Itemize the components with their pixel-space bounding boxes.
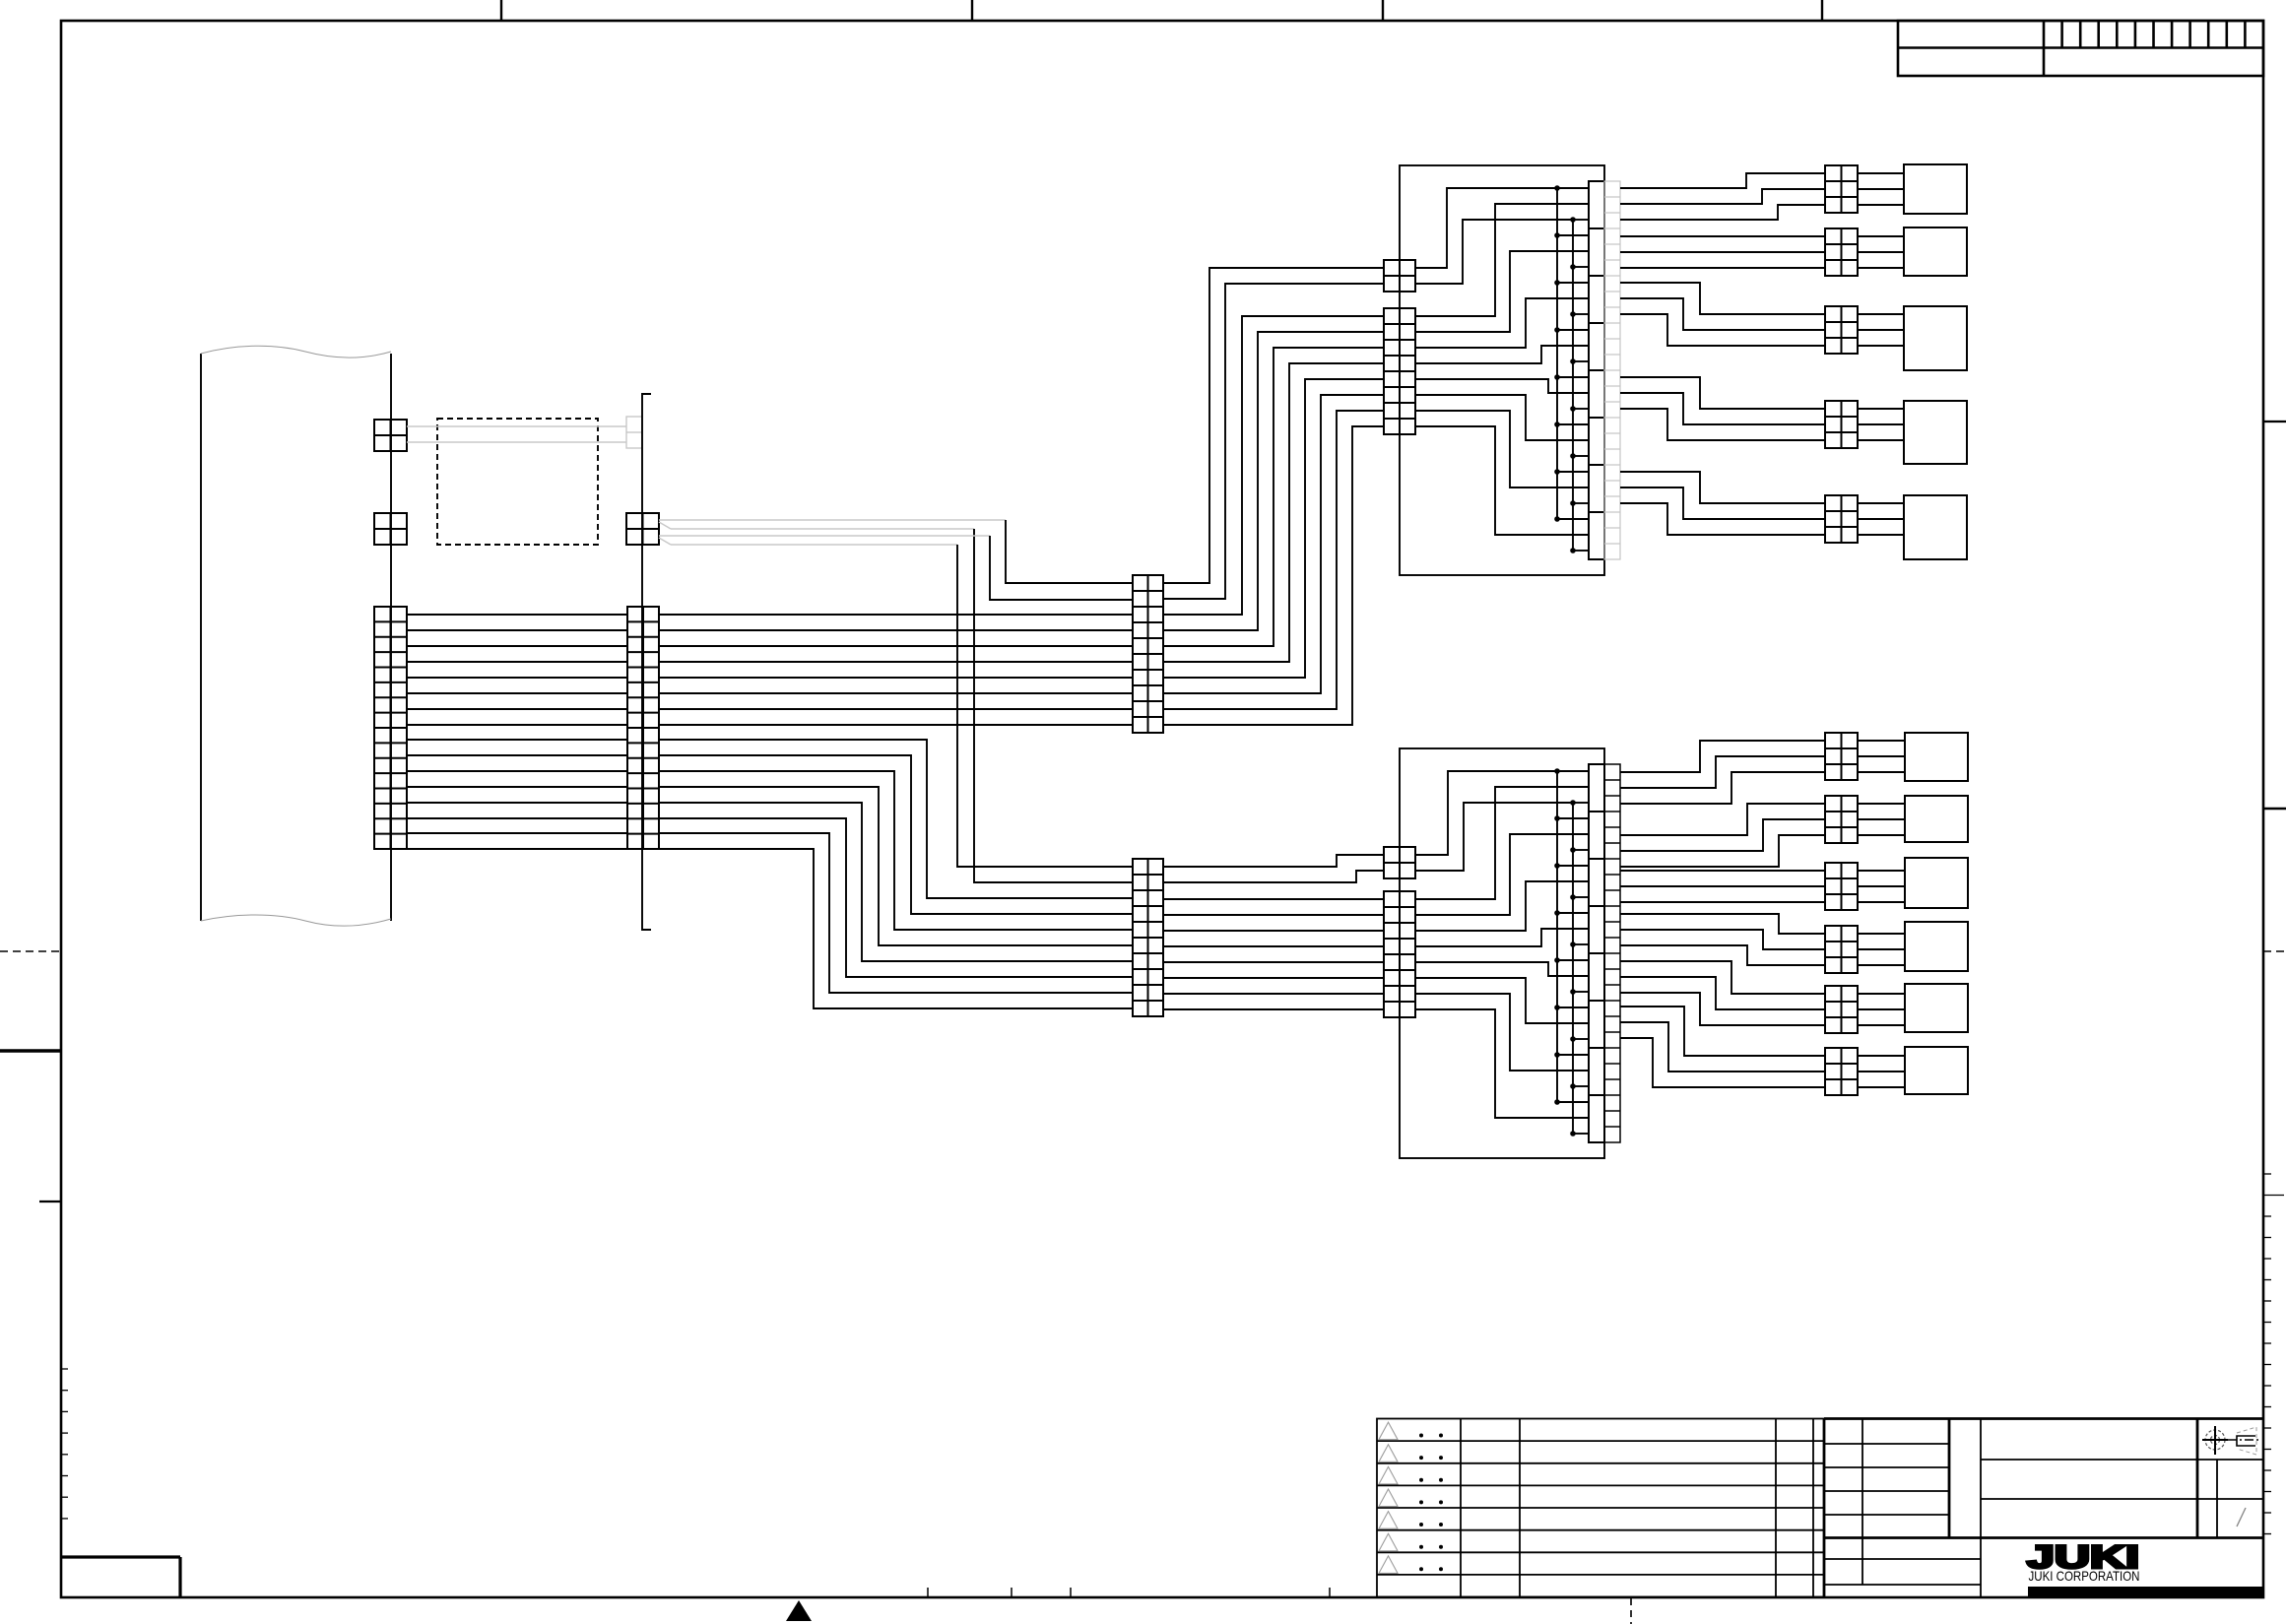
terminal box B1: [1905, 733, 1968, 781]
wires T2 to terminal: [1858, 235, 1904, 237]
wire to junction J1 row1: [1006, 520, 1133, 583]
wire to junction J1 row2: [990, 536, 1133, 600]
terminal box B2: [1905, 796, 1968, 842]
wire bundle TM to J1 (8 straight wires): [659, 614, 1133, 616]
wire to junction J2 row1: [957, 545, 1133, 867]
relay R2a outputs to bus: [1415, 771, 1557, 855]
gray pin column CN-T: [1604, 181, 1620, 559]
junction ladder J1 (10 rows): [1133, 575, 1163, 733]
dashed option box: [437, 419, 598, 545]
top centering tick 4: [1821, 0, 1823, 21]
gray wire pair A-1 (CN-A to gray cells): [407, 425, 626, 427]
relay block B6 (2x3): [1825, 1048, 1858, 1095]
wires B1 to terminal: [1858, 740, 1905, 742]
relay R1b outputs staircase to connector stubs: [1415, 204, 1589, 316]
wires B4 to terminal: [1858, 933, 1905, 935]
terminal box B6: [1905, 1047, 1968, 1094]
wires T5 to terminal: [1858, 502, 1904, 504]
bottom centerfold dashed mark: [1630, 1598, 1632, 1624]
terminal box B4: [1905, 922, 1968, 971]
wavy break line bottom: [201, 915, 391, 926]
relay block B3 (2x3): [1825, 863, 1858, 910]
gray wire pair A-2: [407, 441, 626, 443]
wires B5 to terminal: [1858, 993, 1905, 995]
left fold mark (dashed): [0, 950, 61, 952]
terminal box T5: [1904, 495, 1967, 559]
gray wire CN-C out 4 (slant): [659, 538, 671, 545]
wires T3 to terminal: [1858, 313, 1904, 315]
bottom fold triangle: [786, 1600, 812, 1621]
connector block CN-A (2x2) on left component: [374, 420, 407, 451]
bracket line (cable bundle): [642, 394, 651, 930]
connector block CN-C (2x2) on bracket line: [626, 513, 659, 545]
revision triangles and dots: [1379, 1422, 1398, 1573]
bus stubs with junction dots (top group): [1557, 187, 1589, 189]
relay block B4 (2x3): [1825, 926, 1858, 973]
fan-out wires T4: [1620, 377, 1825, 409]
junction ladder J2 (10 rows): [1133, 859, 1163, 1016]
left tick mark: [39, 1201, 61, 1202]
main connector CN-B (8 cells): [1589, 764, 1604, 1142]
bottom small ticks: [927, 1588, 929, 1597]
third-angle projection symbol: [2202, 1426, 2261, 1455]
internal bus line 2 (bottom): [1572, 803, 1574, 1134]
wires T4 to terminal: [1858, 408, 1904, 410]
left ruler ticks: [61, 1368, 68, 1370]
fan-out wires B4: [1620, 914, 1825, 934]
title block: [1824, 1419, 2263, 1598]
solid black footer bar: [2028, 1587, 2264, 1597]
gray wire CN-C out 2 (slant): [659, 522, 671, 529]
internal bus line 1 (top): [1556, 188, 1558, 519]
fan-out wires T3: [1620, 283, 1825, 314]
bottom-left scale box: [61, 1555, 180, 1558]
fan-out wires T5: [1620, 472, 1825, 503]
wires B2 to terminal: [1858, 803, 1905, 805]
terminal box T3: [1904, 306, 1967, 370]
gray wire CN-C out 1: [659, 519, 1006, 521]
right fold mark (dashed): [2263, 950, 2286, 952]
relay block R1a (2x2): [1384, 260, 1415, 292]
wire to junction J2 row2: [974, 529, 1133, 882]
terminal box T2: [1904, 227, 1967, 276]
bottom harness outline box: [1400, 748, 1604, 1158]
terminal box B5: [1905, 984, 1968, 1032]
wires T1 to terminal: [1858, 172, 1904, 174]
top centering tick 1: [500, 0, 502, 21]
small gray connector cells on bracket line: [626, 417, 642, 448]
left center mark (thick): [0, 1049, 61, 1052]
relay block B1 (2x3): [1825, 733, 1858, 780]
slash mark in sheet cell: [2237, 1508, 2246, 1527]
relay block R2a (2x2): [1384, 847, 1415, 878]
relay block T2 (2x3): [1825, 228, 1858, 276]
relay block T3 (2x3): [1825, 306, 1858, 354]
fan-out wires B5: [1620, 961, 1825, 994]
relay R2b outputs staircase to connector stubs: [1415, 787, 1589, 899]
relay R1a outputs to bus: [1415, 188, 1557, 268]
wavy break line top: [201, 346, 391, 357]
fan-out wires B3: [1620, 870, 1825, 872]
staircase J1 to relay group R1 (10 wires): [1163, 268, 1384, 583]
fan-out wires B1: [1620, 741, 1825, 772]
relay block T4 (2x3): [1825, 401, 1858, 448]
bus stubs with junction dots (bottom group): [1557, 770, 1589, 772]
connector block CN-B (2x2) on left component: [374, 513, 407, 545]
pin column CN-B (black): [1604, 764, 1620, 1142]
fan-out wires B2: [1620, 804, 1825, 835]
terminal ladder TL (left, 16 rows): [374, 607, 407, 849]
wires B3 to terminal: [1858, 870, 1905, 872]
main connector CN-T (8 cells): [1589, 181, 1604, 559]
svg-text:JUKI CORPORATION: JUKI CORPORATION: [2029, 1568, 2140, 1584]
relay ladder R1b (8 rows): [1384, 308, 1415, 434]
top-right revision strip table: [1898, 21, 2263, 76]
relay block B2 (2x3): [1825, 796, 1858, 843]
relay block T5 (2x3): [1825, 495, 1858, 543]
wires J2 to relay group R2: [1163, 855, 1384, 867]
fan-out wires T2: [1620, 235, 1825, 237]
left component (main board, broken edges): [200, 354, 202, 921]
revision history table: [1377, 1419, 1824, 1597]
internal bus line 1 (bottom): [1556, 771, 1558, 1102]
internal bus line 2 (top): [1572, 220, 1574, 551]
terminal box T4: [1904, 401, 1967, 464]
terminal box T1: [1904, 164, 1967, 214]
wire bundle TL to TM (16 wires): [407, 614, 627, 616]
top centering tick 2: [971, 0, 973, 21]
wires B6 to terminal: [1858, 1055, 1905, 1057]
fan-out wires T1: [1620, 173, 1825, 188]
top harness outline box: [1400, 165, 1604, 575]
gray wire CN-C out 3: [659, 535, 990, 537]
terminal ladder TM (middle, 16 rows): [627, 607, 659, 849]
right ruler ticks: [2263, 1173, 2271, 1175]
relay block B5 (2x3): [1825, 986, 1858, 1033]
terminal box B3: [1905, 858, 1968, 908]
fan-out wires B6: [1620, 1007, 1825, 1056]
right tick mark B: [2263, 808, 2286, 811]
wire staircase TM to J2 (8 wires): [659, 740, 1133, 898]
relay block T1 (2x3): [1825, 165, 1858, 213]
top centering tick 3: [1382, 0, 1384, 21]
relay ladder R2b (8 rows): [1384, 891, 1415, 1017]
right tick mark A: [2263, 421, 2286, 422]
